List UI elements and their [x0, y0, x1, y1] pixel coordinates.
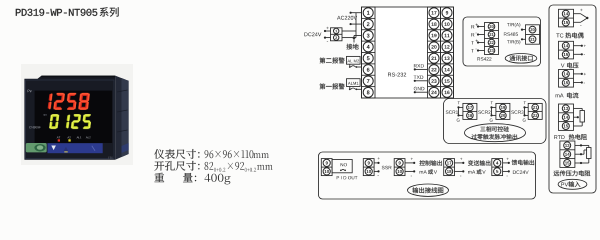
output terminals 17,18 (transmitter output)	[444, 159, 455, 176]
CN909F marking	[29, 126, 41, 128]
indicator row	[57, 137, 61, 139]
SCR ellipse label 三相可控硅/过零触发脉冲输出	[465, 124, 526, 142]
relay NO box	[332, 160, 352, 173]
terminal 3	[363, 30, 373, 40]
terminal 16	[442, 87, 452, 97]
GND wire to terminal 24	[414, 87, 425, 91]
output terminals 4,5 (feed power output)	[492, 159, 503, 176]
instrument photo: PD319 temperature controller	[21, 64, 133, 165]
front bezel	[24, 76, 115, 160]
RS422 terminal 21	[488, 31, 495, 38]
SV label	[44, 114, 47, 116]
SCR1 group	[446, 110, 458, 113]
output box ellipse 输出接线图	[408, 184, 449, 196]
title PD319-WP-NT905 series	[16, 9, 98, 16]
DC24V label	[304, 32, 321, 36]
SCR terminal 21	[532, 104, 539, 111]
SCR2 group	[478, 110, 490, 113]
control output wires	[405, 162, 414, 164]
display window	[35, 91, 113, 143]
SCR terminal 22	[532, 112, 539, 119]
TXD wire to terminal 23	[414, 76, 424, 79]
red PV display 1258	[48, 93, 90, 110]
ALM1 contact	[349, 87, 351, 89]
mA label mA电流	[556, 94, 564, 98]
SCR3 group	[511, 110, 523, 113]
three-phase SCR trigger output box	[444, 99, 547, 144]
RXD wire to terminal 22	[414, 64, 424, 67]
output terminals 9,10 (SSR)	[363, 159, 374, 176]
control output label 控制输出	[420, 160, 442, 165]
DC24V supply box terminals 1,2	[331, 28, 343, 41]
RTD wires and resistor	[574, 107, 583, 109]
terminal 7	[363, 76, 373, 86]
terminal 17	[429, 8, 439, 18]
RS422 signal R-	[471, 33, 474, 36]
DC24V input wires	[325, 30, 331, 32]
RS422 terminal 23	[488, 47, 495, 54]
RS422 signal T-	[471, 49, 474, 52]
terminal 4	[363, 42, 373, 52]
PV label	[28, 90, 32, 93]
RTD label RTD热电阻	[554, 135, 564, 139]
V label V电压	[561, 64, 565, 68]
first alarm label 第一报警	[320, 83, 345, 89]
communication interface box	[463, 17, 541, 66]
terminal 21	[429, 53, 439, 63]
terminal 14	[442, 65, 452, 75]
RTD terminals	[559, 104, 574, 130]
case right side face	[115, 76, 128, 160]
output wiring box	[319, 152, 536, 199]
ground wire terminal 3	[354, 34, 362, 36]
TC label TC热电偶	[556, 34, 563, 38]
remote pressure resistor terminals	[560, 141, 575, 167]
AC220V label	[337, 16, 357, 20]
terminal 23	[429, 76, 439, 86]
terminal 2	[363, 19, 373, 29]
terminal 22	[429, 65, 439, 75]
transmitter output label 变送输出	[468, 160, 490, 165]
output terminals 9,10 (relay)	[321, 159, 332, 176]
terminal 10	[442, 19, 452, 29]
spec text: cutout size 82x92mm	[154, 161, 199, 171]
terminal 1	[363, 8, 373, 18]
PV input ellipse PV输入	[558, 179, 587, 189]
terminal 18	[429, 19, 439, 29]
ALM2 relay box	[347, 56, 361, 64]
ALM1 relay box	[347, 79, 361, 87]
SSR wires	[374, 162, 378, 164]
current input terminals	[559, 70, 574, 88]
terminal 13	[442, 53, 452, 63]
terminal 8	[363, 87, 373, 97]
RS485 terminal cells 20,21	[526, 25, 540, 44]
terminal 24	[429, 87, 439, 97]
terminal 5	[363, 53, 373, 63]
SCR terminal 17	[467, 104, 474, 111]
transmitter output wires	[455, 162, 464, 164]
mA or V label	[420, 170, 427, 173]
ALM2 contact	[349, 64, 351, 66]
terminal 15	[442, 76, 452, 86]
RS422 terminal cells 20-23	[485, 23, 499, 55]
feed output label 馈电输出	[512, 160, 534, 165]
RS422 terminal 22	[488, 39, 495, 46]
wire terminal 2 stub	[350, 23, 362, 25]
feed output wires	[503, 162, 509, 164]
green button	[26, 143, 47, 152]
green SV display 0125	[49, 114, 92, 129]
spec text: instrument size 96x96x110mm	[154, 149, 199, 159]
output terminals 9,10 (control output)	[394, 159, 405, 176]
SCR terminal 19	[500, 104, 507, 111]
spec text: weight 400g	[154, 173, 164, 182]
RS485 terminal 21	[529, 36, 536, 43]
PID OUT label	[337, 176, 358, 179]
voltage input terminals	[559, 41, 574, 59]
second alarm label 第二报警	[320, 58, 345, 64]
blue key strip	[48, 143, 103, 153]
SCR terminal 18	[467, 112, 474, 119]
RS-232 label	[388, 73, 406, 77]
thermocouple symbol	[574, 13, 581, 15]
SCR terminal 20	[500, 112, 507, 119]
terminal 12	[442, 42, 452, 52]
left terminal column cells 1-8	[362, 7, 376, 98]
RS422 signal T+	[471, 41, 474, 44]
RS422 terminal 20	[488, 23, 495, 30]
right terminal column cells 9-16	[441, 7, 454, 98]
terminal 20	[429, 42, 439, 52]
terminal 19	[429, 30, 439, 40]
pressure label 远传压力电阻	[554, 170, 591, 176]
main terminal block outline	[362, 7, 454, 98]
terminal 11	[442, 30, 452, 40]
RS422 label	[477, 57, 491, 60]
DC24V to power bus wires	[342, 30, 356, 32]
right terminal column cells 17-24	[428, 7, 441, 98]
thermocouple terminals	[559, 9, 574, 27]
RS485 label	[504, 32, 518, 35]
ground label 接地	[346, 44, 358, 50]
T/R(B) wire	[507, 40, 520, 44]
comm port ellipse 通讯接口	[505, 54, 537, 64]
PV input box	[549, 5, 596, 193]
wire terminal 1 stub	[350, 12, 362, 14]
RS422 signal R+	[471, 25, 474, 28]
terminal 9	[442, 8, 452, 18]
terminal 6	[363, 65, 373, 75]
pressure resistor wires	[575, 144, 589, 146]
RS485 terminal 20	[529, 26, 536, 33]
T/R(A) wire	[507, 23, 520, 27]
